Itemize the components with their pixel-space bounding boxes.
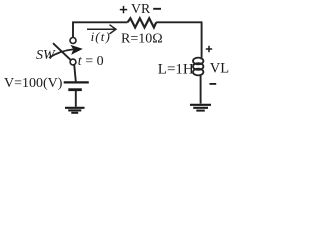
wire: switch bottom terminal to battery: [74, 65, 76, 82]
voltage polarity minus for VR: [153, 8, 161, 10]
svg-text:L=1H: L=1H: [158, 62, 194, 78]
svg-text:t = 0: t = 0: [78, 54, 104, 69]
wire: battery to left ground: [75, 91, 77, 107]
switch closing arrow (arc and solid head): [49, 49, 73, 57]
battery source V: long positive plate: [64, 81, 89, 83]
svg-text:SW: SW: [36, 48, 56, 63]
switch blade: [53, 43, 71, 60]
voltage polarity plus for VL: [206, 46, 212, 52]
wire: top horizontal right segment and right vertical rail: [156, 22, 201, 57]
ground (left): three bars: [65, 108, 85, 113]
svg-text:R=10Ω: R=10Ω: [121, 32, 163, 47]
switch SW top terminal circle: [70, 38, 76, 44]
ground (right): three bars: [190, 105, 211, 111]
inductor L coil (three loops): [193, 57, 203, 75]
wire: top horizontal left segment (corner to resistor): [73, 22, 128, 37]
svg-text:i(t): i(t): [91, 29, 111, 44]
resistor R zigzag: [128, 18, 157, 27]
svg-text:V=100(V): V=100(V): [4, 76, 63, 91]
svg-text:VR: VR: [131, 1, 151, 16]
wire: inductor to right ground: [200, 75, 202, 104]
current arrow i(t): [87, 25, 116, 34]
switch SW bottom terminal circle: [70, 59, 76, 65]
voltage polarity minus for VL: [210, 83, 217, 85]
voltage polarity plus for VR: [120, 6, 127, 13]
svg-text:VL: VL: [210, 61, 229, 77]
battery source V: short negative plate: [68, 88, 82, 91]
